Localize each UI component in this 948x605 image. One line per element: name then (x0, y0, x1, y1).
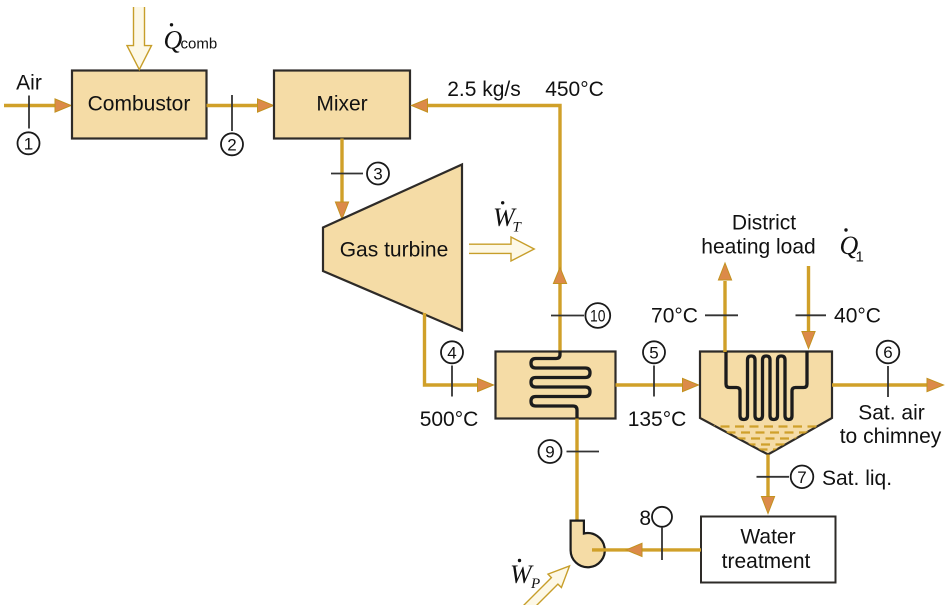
combustor (72, 71, 207, 139)
work output arrow W_T (469, 237, 534, 261)
wire: air inlet to combustor (4, 99, 71, 112)
svg-text:5: 5 (649, 343, 658, 362)
svg-text:8: 8 (639, 507, 651, 530)
node 1 (18, 96, 40, 155)
svg-text:1: 1 (856, 249, 864, 266)
node 4 (441, 341, 463, 396)
heat exchanger HX (regenerator) (496, 352, 616, 419)
node 3 (331, 163, 389, 185)
svg-text:District: District (732, 212, 796, 235)
wire: turbine exhaust to heat exchanger (425, 313, 494, 392)
svg-text:2.5 kg/s: 2.5 kg/s (447, 78, 521, 101)
node 5 (643, 341, 665, 396)
coil inside condenser (726, 351, 807, 420)
svg-text:1: 1 (24, 134, 33, 153)
wire: combustor to mixer (207, 99, 274, 112)
wire: condensate to water treatment (761, 455, 774, 514)
svg-text:Water: Water (740, 526, 795, 549)
label Sat. air to chimney (840, 402, 942, 448)
label 40°C and tick (796, 305, 881, 328)
pump P (571, 521, 605, 568)
condenser / district heater vessel (700, 352, 832, 455)
wire: water treatment to pump (592, 543, 701, 556)
wire: district heating supply (up out of condenser) (718, 263, 731, 352)
node 2 (221, 95, 243, 155)
node 8 (639, 507, 672, 560)
svg-text:70°C: 70°C (651, 305, 698, 328)
svg-text:3: 3 (373, 165, 382, 184)
svg-text:to chimney: to chimney (840, 425, 942, 448)
svg-text:450°C: 450°C (545, 78, 604, 101)
node 10 (551, 303, 610, 328)
svg-text:Combustor: Combustor (88, 93, 191, 116)
label District heating load (701, 212, 815, 259)
svg-text:4: 4 (447, 343, 456, 362)
water treatment unit (701, 517, 836, 583)
mixer (274, 71, 410, 139)
svg-text:500°C: 500°C (420, 408, 479, 431)
label 70°C and tick (651, 305, 738, 328)
svg-text:10: 10 (590, 307, 606, 326)
label Q_1 (840, 228, 864, 265)
svg-text:9: 9 (545, 443, 554, 462)
gas turbine (323, 165, 462, 331)
label W_P (510, 559, 540, 592)
svg-text:2: 2 (227, 135, 236, 154)
svg-text:treatment: treatment (722, 550, 811, 573)
node 6 (877, 341, 900, 397)
label Q_comb (164, 23, 218, 54)
wire: district heating return (down into condenser) (802, 266, 815, 349)
svg-text:Mixer: Mixer (316, 93, 367, 116)
svg-text:P: P (530, 576, 540, 592)
work input arrow W_P (510, 566, 570, 605)
svg-text:Air: Air (16, 72, 42, 95)
svg-text:comb: comb (181, 36, 218, 53)
heat input arrow Q_comb (127, 7, 152, 70)
svg-text:7: 7 (797, 468, 806, 487)
coil inside heat exchanger (531, 351, 590, 419)
wire: heat exchanger bottom to pump (575, 419, 578, 522)
svg-text:135°C: 135°C (628, 408, 687, 431)
wire: recycle line into mixer (from node 10 riser) (412, 99, 567, 352)
wire: mixer to gas turbine (335, 139, 348, 220)
node 9 (539, 440, 600, 463)
svg-text:40°C: 40°C (834, 305, 881, 328)
wire: saturated air to chimney (832, 378, 944, 391)
svg-text:6: 6 (883, 343, 892, 362)
svg-text:Sat. liq.: Sat. liq. (822, 467, 892, 490)
wire: heat exchanger to condenser (616, 378, 699, 391)
label W_T (493, 201, 523, 235)
svg-text:Sat. air: Sat. air (858, 402, 925, 425)
node 7 (757, 466, 814, 489)
svg-text:heating load: heating load (701, 236, 815, 259)
svg-text:Gas turbine: Gas turbine (340, 239, 449, 262)
